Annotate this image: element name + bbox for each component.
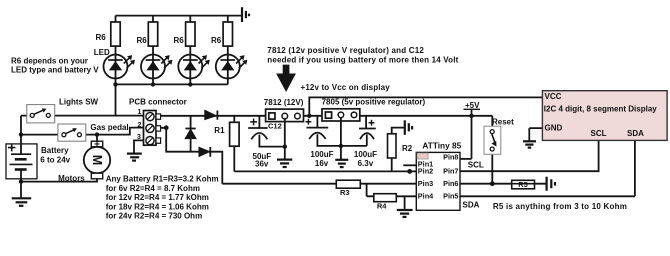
regulator U3 7805 xyxy=(322,109,360,121)
wire R4 line to pin4 xyxy=(367,184,417,210)
svg-text:Any Battery R1=R3=3.2 Kohm: Any Battery R1=R3=3.2 Kohm xyxy=(106,175,219,184)
svg-text:SCL: SCL xyxy=(591,129,607,138)
svg-text:R6: R6 xyxy=(211,36,222,45)
svg-text:Pin2: Pin2 xyxy=(418,167,433,176)
svg-text:for 24v R2=R4 = 730 Ohm: for 24v R2=R4 = 730 Ohm xyxy=(106,212,203,221)
svg-text:Battery: Battery xyxy=(41,146,69,155)
wire ATTiny pin8 xyxy=(460,158,472,160)
LED D3 xyxy=(178,55,210,79)
svg-text:R6 depends on your: R6 depends on your xyxy=(11,57,88,66)
svg-text:1: 1 xyxy=(138,109,142,116)
svg-text:PCB connector: PCB connector xyxy=(129,97,187,106)
svg-text:7812 (12v positive V regulator: 7812 (12v positive V regulator) and C12 xyxy=(267,46,424,55)
svg-text:SDA: SDA xyxy=(463,200,480,209)
svg-text:36v: 36v xyxy=(255,160,269,169)
underline for +5V xyxy=(464,108,481,110)
ground display GND xyxy=(523,141,536,147)
svg-text:R3: R3 xyxy=(340,188,350,197)
capacitor C2 100uF 16v xyxy=(306,119,329,139)
svg-text:C12: C12 xyxy=(268,122,282,131)
resistor R1 xyxy=(230,122,240,146)
svg-text:100uF: 100uF xyxy=(310,150,333,159)
svg-text:100uF: 100uF xyxy=(354,150,377,159)
svg-text:+12v to Vcc on display: +12v to Vcc on display xyxy=(301,83,391,92)
svg-text:R6: R6 xyxy=(96,33,107,42)
ground pin4 R4 xyxy=(397,210,413,217)
wire motor bottom to battery minus xyxy=(21,170,97,199)
svg-text:R4: R4 xyxy=(377,201,387,210)
svg-text:LED: LED xyxy=(94,48,110,57)
svg-text:Gas pedal: Gas pedal xyxy=(90,123,128,132)
svg-text:+5V: +5V xyxy=(465,101,480,110)
wire +5V vertical xyxy=(471,109,473,159)
ground under 7805 xyxy=(335,160,348,167)
svg-text:SDA: SDA xyxy=(627,129,644,138)
svg-text:16v: 16v xyxy=(315,159,329,168)
svg-text:M: M xyxy=(90,155,104,165)
wire gas pedal branch xyxy=(21,128,144,135)
svg-text:Motors: Motors xyxy=(58,174,85,183)
svg-text:ATTiny 85: ATTiny 85 xyxy=(422,141,461,151)
big black arrow xyxy=(276,65,296,92)
svg-text:LED type and battery V: LED type and battery V xyxy=(11,66,99,75)
svg-text:VCC: VCC xyxy=(545,92,562,101)
text annotations xyxy=(11,33,627,220)
wire LED top rail xyxy=(116,15,242,17)
svg-text:2: 2 xyxy=(138,122,142,129)
svg-text:6 to 24v: 6 to 24v xyxy=(40,155,70,164)
motor M1 xyxy=(84,141,110,179)
resistor R2 xyxy=(388,134,397,158)
svg-text:GND: GND xyxy=(545,124,563,133)
wire 7812 ground pin xyxy=(284,122,286,160)
svg-text:7805 (5v positive regulator): 7805 (5v positive regulator) xyxy=(322,98,426,107)
LED D4 xyxy=(216,55,248,79)
wire reset switch top xyxy=(491,116,493,127)
wire PCB pin3 to ground xyxy=(134,140,144,153)
wire lights SW to PCB pin1 xyxy=(50,115,144,117)
svg-text:for 12v R2=R4 = 1.77 kOhm: for 12v R2=R4 = 1.77 kOhm xyxy=(106,193,209,202)
PCB connector J1 xyxy=(144,111,161,146)
wire cap 100uF16v stubs xyxy=(317,116,341,146)
display module xyxy=(542,91,667,141)
wire LED column 2 xyxy=(152,16,154,85)
svg-text:Pin8: Pin8 xyxy=(443,153,458,162)
diode D6 flyback vertical xyxy=(185,129,196,139)
wire LED column 3 xyxy=(189,16,191,85)
svg-text:3: 3 xyxy=(137,134,141,141)
ground rotated at R5 xyxy=(547,177,555,191)
wire LED column 1 xyxy=(115,16,117,116)
wire SCL pin7 to display xyxy=(460,140,599,171)
capacitor C3 100uF 6.3v xyxy=(359,120,376,139)
LED D2 xyxy=(141,55,173,79)
wire SDA pin5 to display xyxy=(460,140,635,196)
wire pin6 to R5 ground xyxy=(460,183,546,185)
wire reset switch bottom xyxy=(491,151,493,184)
wire battery positive vertical xyxy=(21,116,31,155)
wire R2 top to rotated ground xyxy=(392,128,405,134)
svg-text:Lights SW: Lights SW xyxy=(59,98,99,107)
ground rotated at R2 top xyxy=(405,120,412,135)
svg-text:6.3v: 6.3v xyxy=(358,159,374,168)
svg-text:for 18v R2=R4 = 1.06 Kohm: for 18v R2=R4 = 1.06 Kohm xyxy=(106,203,209,212)
svg-text:Pin6: Pin6 xyxy=(443,179,458,188)
switch Reset xyxy=(484,126,501,154)
resistor R5 xyxy=(512,180,535,189)
LED D1 xyxy=(104,55,136,79)
wire display GND xyxy=(529,128,542,141)
wire C12 stubs xyxy=(259,116,284,147)
wire cap 100uF6.3v stubs xyxy=(341,116,367,146)
resistor R3 xyxy=(336,180,360,188)
wire LED bottom rail xyxy=(116,83,228,85)
ground rotated at LED rail xyxy=(242,7,249,22)
svg-text:Pin5: Pin5 xyxy=(443,191,458,200)
resistor R6 x4 xyxy=(111,22,233,46)
svg-text:for 6v R2=R4 = 8.7 Kohm: for 6v R2=R4 = 8.7 Kohm xyxy=(106,184,200,193)
battery xyxy=(6,144,37,179)
wire motor top xyxy=(96,135,98,142)
wire +12v to display VCC xyxy=(309,97,542,115)
svg-text:R5 is anything from 3 to 10 Ko: R5 is anything from 3 to 10 Kohm xyxy=(493,202,627,211)
ground battery bottom-left xyxy=(12,198,32,206)
ground PCB pin3 xyxy=(127,154,142,161)
regulator U2 7812 xyxy=(266,109,304,122)
wire R1 top and bottom xyxy=(234,116,416,172)
switch Lights SW xyxy=(27,105,55,123)
svg-text:R2: R2 xyxy=(402,144,413,153)
svg-text:Pin7: Pin7 xyxy=(443,167,458,176)
diode D7 lower xyxy=(199,147,210,157)
resistor R4 xyxy=(374,194,397,202)
wire 7805 ground pin xyxy=(340,121,342,160)
svg-text:7812 (12V): 7812 (12V) xyxy=(264,98,304,107)
wire ATTiny pin1 stub xyxy=(403,164,416,166)
capacitor C12 xyxy=(248,119,267,140)
switch Gas pedal xyxy=(58,124,86,141)
svg-text:Reset: Reset xyxy=(492,117,514,126)
IC U1 ATTiny85 xyxy=(416,152,460,210)
wire PCB pin2 branch down xyxy=(144,128,223,184)
svg-text:R6: R6 xyxy=(137,36,148,45)
svg-text:needed if you using battery of: needed if you using battery of more then… xyxy=(267,56,458,65)
wire LED column 4 xyxy=(227,16,229,85)
diode D5 top xyxy=(205,110,218,119)
wire main positive rail xyxy=(156,115,492,117)
svg-text:R1: R1 xyxy=(214,126,225,135)
svg-text:Pin3: Pin3 xyxy=(418,179,433,188)
svg-text:R5: R5 xyxy=(518,180,527,189)
svg-text:Pin4: Pin4 xyxy=(418,191,434,200)
svg-text:I2C 4 digit, 8 segment Display: I2C 4 digit, 8 segment Display xyxy=(544,104,657,113)
svg-text:SCL: SCL xyxy=(468,160,484,169)
wire R3 line to pin3 xyxy=(222,183,416,185)
ground under 7812/C12 xyxy=(277,160,292,167)
svg-text:R6: R6 xyxy=(174,36,185,45)
wire R2 bottom xyxy=(391,158,393,171)
wire flyback diode vertical xyxy=(190,116,192,152)
